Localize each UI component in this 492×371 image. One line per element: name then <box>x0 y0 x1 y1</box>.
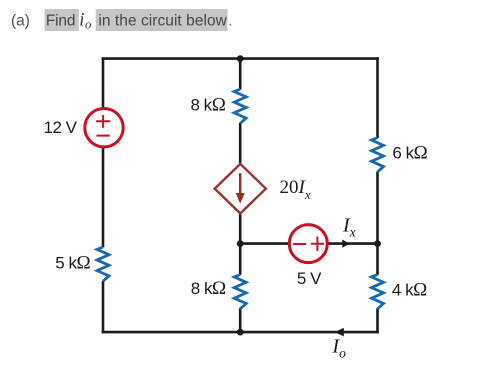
V1 plus sign <box>96 115 110 128</box>
svg-text:Find: Find <box>46 13 75 30</box>
svg-text:8 kΩ: 8 kΩ <box>191 278 226 299</box>
wire left middle segment <box>102 146 105 247</box>
svg-text:(a): (a) <box>11 13 30 30</box>
wire middle branch top stub <box>239 59 242 90</box>
current arrow Io on bottom wire <box>335 328 344 337</box>
dependent source arrow <box>236 173 245 204</box>
wire right middle segment <box>376 172 379 276</box>
resistor 5k left zigzag <box>97 247 109 281</box>
wire right top segment <box>376 57 379 138</box>
svg-text:in the circuit below: in the circuit below <box>98 13 227 30</box>
wire middle branch between diamond and mid node <box>239 213 242 275</box>
current arrow Ix on wire <box>342 240 350 248</box>
wire top horizontal <box>102 57 379 60</box>
title text (a) <box>11 13 30 30</box>
voltage source V2 5V circle <box>289 225 327 263</box>
svg-text:8 kΩ: 8 kΩ <box>191 94 226 115</box>
node dot bottom middle <box>237 329 244 336</box>
svg-text:6 kΩ: 6 kΩ <box>392 143 427 164</box>
svg-text:12 V: 12 V <box>44 118 78 137</box>
node dot top middle <box>237 55 244 62</box>
resistor 6k right zigzag <box>372 138 384 172</box>
V2 plus sign <box>311 237 324 252</box>
V2 minus sign <box>293 243 306 245</box>
highlight box behind 'Find' <box>45 9 79 31</box>
svg-text:5 V: 5 V <box>297 269 322 288</box>
V1 minus sign <box>97 135 110 137</box>
wire left top segment <box>102 57 105 109</box>
node dot mid right <box>374 240 381 247</box>
svg-text:io: io <box>79 11 92 32</box>
wire bottom horizontal <box>102 331 379 334</box>
wire right bottom segment <box>376 308 379 333</box>
svg-text:.: . <box>228 13 232 30</box>
wire middle horizontal right of 5V source <box>327 242 378 245</box>
wire middle branch between 8k and diamond <box>239 123 242 164</box>
voltage source V1 12V circle <box>85 109 123 147</box>
svg-text:Io: Io <box>331 336 346 361</box>
svg-text:5 kΩ: 5 kΩ <box>55 253 90 274</box>
resistor 8k top zigzag <box>234 89 246 123</box>
node dot mid left <box>237 240 244 247</box>
resistor 8k bottom zigzag <box>234 275 246 309</box>
resistor 4k right zigzag <box>372 275 384 309</box>
wire left bottom segment <box>102 281 105 333</box>
wire middle branch bottom stub <box>239 308 242 332</box>
dependent current source diamond 20Ix <box>215 164 266 214</box>
svg-text:Ix: Ix <box>342 214 356 239</box>
svg-text:20Ix: 20Ix <box>280 177 311 202</box>
highlight box behind 'in the circuit below' <box>96 9 228 31</box>
svg-text:4 kΩ: 4 kΩ <box>392 280 427 301</box>
wire middle horizontal left of 5V source <box>240 242 290 245</box>
